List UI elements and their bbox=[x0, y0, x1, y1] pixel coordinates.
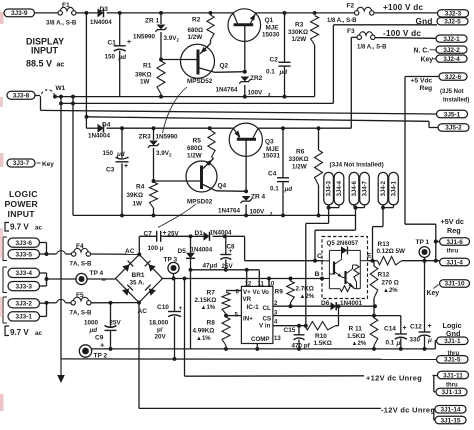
node bbox=[304, 324, 308, 328]
svg-text:1N5990: 1N5990 bbox=[156, 134, 179, 141]
wire bbox=[153, 148, 155, 182]
resistor R4 bbox=[127, 182, 158, 208]
svg-text:W1: W1 bbox=[56, 85, 66, 92]
svg-text:680Ω: 680Ω bbox=[188, 27, 204, 34]
wire +5V bbox=[368, 260, 378, 262]
connector 3J1-11 bbox=[437, 371, 468, 379]
svg-text:▲2%: ▲2% bbox=[383, 288, 398, 294]
node bbox=[189, 234, 193, 238]
wire bbox=[435, 340, 436, 349]
connector 3J3-8 bbox=[7, 91, 35, 99]
svg-text:D3: D3 bbox=[100, 6, 109, 13]
svg-text:+: + bbox=[124, 163, 128, 170]
svg-text:+5 Vdc: +5 Vdc bbox=[411, 77, 433, 84]
wire B rail bbox=[163, 278, 324, 280]
node bbox=[317, 213, 321, 217]
svg-text:39KΩ: 39KΩ bbox=[135, 72, 152, 79]
svg-text:INPUT: INPUT bbox=[8, 209, 36, 219]
transistor Q2 bbox=[161, 44, 229, 86]
connector 3J3-1 bbox=[8, 312, 40, 321]
zener ZR1 bbox=[133, 18, 180, 44]
wire bbox=[107, 127, 234, 129]
wire rail ground return bbox=[61, 102, 334, 104]
label N.C. bbox=[414, 48, 437, 55]
capacitor C12 bbox=[410, 261, 433, 349]
wire D4 feed vertical bbox=[85, 13, 87, 128]
wire with crossover bbox=[47, 299, 72, 302]
svg-text:R8: R8 bbox=[207, 320, 216, 327]
wire bbox=[139, 236, 156, 254]
svg-text:Q2: Q2 bbox=[220, 63, 229, 70]
pin 13 bbox=[274, 336, 281, 342]
resistor R5 bbox=[187, 128, 215, 159]
svg-text:1N4001: 1N4001 bbox=[340, 300, 363, 307]
svg-text:3J1-14: 3J1-14 bbox=[440, 406, 460, 413]
svg-text:4.99KΩ: 4.99KΩ bbox=[193, 328, 215, 335]
wire bbox=[161, 235, 203, 237]
node bbox=[313, 11, 317, 15]
svg-text:3J1-5: 3J1-5 bbox=[444, 357, 461, 364]
wire pin13 bbox=[256, 344, 258, 349]
svg-text:1/2W: 1/2W bbox=[188, 34, 203, 41]
wire bbox=[212, 157, 214, 159]
wire Q4 collector bbox=[216, 190, 246, 193]
label 3J5 not installed bbox=[440, 89, 469, 104]
diode D1 bbox=[195, 230, 233, 241]
svg-text:3J1-4: 3J1-4 bbox=[446, 259, 463, 266]
node bbox=[59, 101, 63, 105]
label Key bbox=[421, 57, 437, 64]
wire pin4 bbox=[273, 325, 305, 327]
svg-text:LOGIC: LOGIC bbox=[9, 189, 38, 199]
svg-text:680Ω: 680Ω bbox=[187, 145, 203, 152]
connector 3J2-1 bbox=[436, 35, 467, 43]
svg-text:R9: R9 bbox=[275, 289, 284, 296]
node bbox=[244, 213, 248, 217]
capacitor C14 bbox=[384, 316, 407, 349]
svg-text:3J3-4: 3J3-4 bbox=[16, 270, 33, 277]
node bbox=[208, 126, 212, 130]
wire bbox=[245, 205, 247, 216]
wire bbox=[35, 96, 41, 111]
wire bbox=[160, 13, 162, 24]
svg-text:D6: D6 bbox=[321, 300, 330, 307]
bridge rectifier BR1 bbox=[116, 248, 163, 315]
svg-text:1/2W: 1/2W bbox=[292, 164, 307, 171]
svg-text:MPSD52: MPSD52 bbox=[187, 78, 213, 85]
connector 3J3-5 bbox=[8, 250, 40, 259]
svg-text:330KΩ: 330KΩ bbox=[288, 29, 308, 36]
scan mark bbox=[0, 12, 4, 24]
zener ZR2 bbox=[216, 75, 272, 98]
wire bbox=[91, 302, 139, 304]
svg-text:Key: Key bbox=[42, 161, 54, 168]
svg-text:20V: 20V bbox=[155, 334, 167, 341]
svg-text:Gnd: Gnd bbox=[416, 17, 433, 26]
svg-text:1.5KΩ: 1.5KΩ bbox=[314, 340, 332, 347]
svg-text:C10: C10 bbox=[157, 304, 169, 311]
svg-text:3J5-2: 3J5-2 bbox=[445, 125, 462, 132]
svg-text:R3: R3 bbox=[295, 22, 304, 29]
wire bbox=[184, 279, 186, 377]
svg-text:88.5 V: 88.5 V bbox=[26, 59, 52, 69]
svg-text:ac: ac bbox=[35, 330, 43, 337]
node bbox=[317, 126, 321, 130]
wire channel2 bottom rail bbox=[73, 214, 356, 216]
wire -12V unreg bbox=[139, 406, 435, 415]
svg-text:Key: Key bbox=[427, 290, 440, 297]
svg-text:Q1: Q1 bbox=[265, 17, 274, 24]
IC U1 IC-1 box bbox=[241, 286, 273, 343]
node bbox=[71, 101, 75, 105]
svg-text:3J3-5: 3J3-5 bbox=[16, 251, 33, 258]
svg-text:3/8 A., S-B: 3/8 A., S-B bbox=[46, 20, 77, 27]
svg-text:VR: VR bbox=[243, 296, 252, 303]
label Logic Gnd bbox=[443, 321, 462, 338]
wire bbox=[282, 182, 284, 215]
svg-text:0.1: 0.1 bbox=[386, 340, 395, 347]
connector 3J1-14 bbox=[435, 406, 466, 414]
svg-text:1N5990: 1N5990 bbox=[133, 34, 156, 41]
node bbox=[152, 213, 156, 217]
svg-text:0.1: 0.1 bbox=[266, 69, 275, 76]
connector 3J5-1 bbox=[437, 110, 468, 118]
wire bbox=[110, 331, 112, 349]
wire bbox=[160, 94, 162, 97]
svg-text:0.1: 0.1 bbox=[270, 186, 279, 193]
wire bbox=[258, 127, 352, 129]
svg-text:1N4764: 1N4764 bbox=[216, 87, 239, 94]
svg-text:3J3-3: 3J3-3 bbox=[16, 283, 33, 290]
wire gnd vertical bbox=[332, 25, 334, 104]
node bbox=[120, 126, 124, 130]
svg-text:TP 1: TP 1 bbox=[416, 239, 430, 246]
wire 3J4-1/2 drop bbox=[373, 208, 384, 261]
test point TP4 bbox=[76, 270, 104, 285]
wire bbox=[244, 85, 246, 97]
svg-text:B: B bbox=[315, 271, 320, 278]
svg-text:R10: R10 bbox=[315, 333, 327, 340]
node bbox=[423, 347, 427, 351]
wire +5V bbox=[402, 260, 440, 262]
svg-text:C7: C7 bbox=[144, 231, 153, 238]
test point TP3 bbox=[164, 257, 180, 274]
svg-text:3J3-9: 3J3-9 bbox=[11, 10, 28, 17]
label LOGIC POWER INPUT bbox=[5, 189, 39, 219]
wire bbox=[190, 258, 192, 349]
connector 3J4-2 bbox=[378, 172, 388, 205]
svg-text:▲2%: ▲2% bbox=[300, 294, 315, 300]
svg-text:CL: CL bbox=[263, 305, 271, 312]
connector 3J3-7 bbox=[7, 159, 54, 168]
svg-text:R13: R13 bbox=[378, 241, 390, 248]
wire bbox=[110, 303, 112, 328]
node bbox=[137, 252, 141, 256]
wire bbox=[87, 276, 115, 285]
svg-text:TP 3: TP 3 bbox=[164, 257, 178, 264]
scan mark bbox=[0, 97, 3, 107]
diode D5 bbox=[178, 236, 213, 258]
wire bbox=[244, 236, 246, 260]
svg-text:2.15KΩ: 2.15KΩ bbox=[195, 297, 217, 304]
svg-text:3J4-6: 3J4-6 bbox=[352, 180, 358, 196]
capacitor C9 bbox=[84, 320, 122, 350]
node bbox=[223, 234, 227, 238]
wire bbox=[35, 12, 59, 14]
svg-text:F4: F4 bbox=[76, 243, 84, 250]
wire 3J4-6/7 link bbox=[354, 205, 365, 210]
wire Q2 collector bbox=[215, 71, 245, 74]
wire bbox=[160, 32, 162, 61]
node E terminal bbox=[367, 253, 374, 263]
svg-text:3.9V: 3.9V bbox=[156, 150, 170, 157]
svg-text:μ/: μ/ bbox=[157, 327, 163, 334]
wire 3J4-6/7 drop bbox=[315, 208, 356, 261]
svg-text:13: 13 bbox=[274, 336, 281, 342]
node bbox=[289, 304, 293, 308]
svg-text:μd: μd bbox=[116, 151, 125, 158]
wire bbox=[434, 376, 436, 392]
diode D4 bbox=[88, 121, 111, 139]
test point TP2 bbox=[79, 345, 107, 360]
svg-text:Q3: Q3 bbox=[265, 139, 274, 146]
node bbox=[224, 347, 228, 351]
svg-text:Reg: Reg bbox=[447, 226, 461, 235]
svg-text:R2: R2 bbox=[192, 17, 201, 24]
node bbox=[399, 347, 403, 351]
svg-text:-12V dc Unreg: -12V dc Unreg bbox=[381, 406, 435, 415]
wire IC pin12 feed bbox=[246, 270, 248, 287]
svg-text:F1: F1 bbox=[62, 2, 70, 9]
svg-text:2.7KΩ: 2.7KΩ bbox=[296, 286, 314, 293]
svg-text:IN+: IN+ bbox=[243, 316, 253, 323]
svg-text:330: 330 bbox=[410, 337, 421, 344]
wire +12V unreg bbox=[185, 373, 423, 382]
node bbox=[59, 95, 63, 99]
pin 6 bbox=[236, 290, 240, 296]
svg-text:+: + bbox=[229, 248, 233, 255]
svg-text:F2: F2 bbox=[347, 3, 355, 10]
wire bbox=[40, 303, 47, 317]
node bbox=[434, 240, 438, 244]
wire 3J4-1/2 link bbox=[381, 205, 393, 210]
fuse F3 bbox=[347, 28, 387, 51]
fuse F5 bbox=[70, 292, 93, 317]
svg-text:1.5KΩ: 1.5KΩ bbox=[347, 333, 365, 340]
svg-text:▲1%: ▲1% bbox=[201, 305, 216, 311]
svg-text:C12: C12 bbox=[410, 324, 422, 331]
svg-text:3J2-6: 3J2-6 bbox=[445, 74, 462, 81]
node bbox=[434, 259, 438, 263]
node bbox=[372, 347, 376, 351]
wire -100V to 3J2-1 bbox=[375, 29, 436, 38]
svg-text:IC-1: IC-1 bbox=[247, 304, 260, 311]
svg-text:POWER: POWER bbox=[5, 199, 39, 209]
svg-text:0.12Ω 5W: 0.12Ω 5W bbox=[377, 248, 406, 255]
wire bbox=[153, 128, 155, 140]
connector 3J3-4 bbox=[3, 267, 40, 293]
label thru bbox=[448, 351, 460, 357]
svg-text:+: + bbox=[127, 39, 131, 46]
svg-text:Q4: Q4 bbox=[218, 183, 227, 190]
node bbox=[53, 95, 57, 99]
svg-text:3J4-1: 3J4-1 bbox=[392, 180, 398, 196]
wire ground bus bbox=[61, 358, 437, 360]
resistor R10 bbox=[305, 322, 336, 348]
scan mark bbox=[0, 153, 4, 167]
connector 3J1-5 bbox=[437, 356, 469, 364]
svg-text:AC: AC bbox=[125, 248, 135, 255]
wire bbox=[433, 408, 436, 410]
svg-text:Q5 2N6057: Q5 2N6057 bbox=[327, 240, 359, 247]
svg-text:100 μ: 100 μ bbox=[148, 245, 164, 252]
connector 3J1-15 bbox=[435, 416, 466, 424]
svg-text:R5: R5 bbox=[193, 138, 202, 145]
fuse F2 bbox=[327, 3, 374, 24]
node bbox=[373, 304, 377, 308]
capacitor C2 bbox=[266, 56, 291, 76]
svg-text:270 Ω: 270 Ω bbox=[382, 280, 399, 287]
svg-text:INPUT: INPUT bbox=[31, 46, 59, 56]
wire bbox=[225, 346, 227, 349]
svg-text:μd: μd bbox=[89, 327, 98, 334]
node bbox=[255, 347, 259, 351]
svg-text:+100 V dc: +100 V dc bbox=[383, 3, 423, 12]
capacitor C15 bbox=[284, 326, 311, 350]
svg-text:V in: V in bbox=[259, 323, 271, 330]
node ZR2 top junction bbox=[243, 70, 247, 74]
wire bbox=[284, 67, 286, 97]
wire bbox=[173, 274, 175, 279]
svg-text:C1: C1 bbox=[108, 39, 117, 46]
svg-text:R1: R1 bbox=[143, 63, 152, 70]
svg-text:BR1: BR1 bbox=[132, 272, 145, 279]
svg-text:3J4-4: 3J4-4 bbox=[337, 180, 343, 196]
svg-text:C3: C3 bbox=[106, 167, 115, 174]
node bbox=[173, 357, 177, 361]
svg-text:+: + bbox=[179, 305, 183, 312]
svg-text:3J1-1: 3J1-1 bbox=[444, 338, 461, 345]
svg-text:1N4004: 1N4004 bbox=[191, 247, 213, 254]
wire bbox=[76, 12, 98, 14]
svg-text:1N4004: 1N4004 bbox=[210, 230, 233, 237]
wire rail channel1 bottom bbox=[55, 96, 315, 98]
resistor R8 bbox=[193, 317, 231, 346]
connector 3J2-6 bbox=[439, 73, 467, 81]
wire bbox=[40, 243, 47, 255]
connector 3J5-2 bbox=[438, 124, 469, 132]
svg-text:μd: μd bbox=[284, 186, 293, 193]
wire bbox=[138, 303, 140, 409]
svg-text:COMP: COMP bbox=[251, 336, 270, 343]
svg-text:1/2W: 1/2W bbox=[292, 36, 307, 43]
transistor Q4 bbox=[154, 159, 227, 206]
wire bbox=[153, 208, 155, 215]
svg-text:F3: F3 bbox=[347, 28, 355, 35]
svg-text:3J2-4: 3J2-4 bbox=[443, 56, 460, 63]
svg-text:thru: thru bbox=[447, 249, 459, 255]
connector 3J3-3 bbox=[8, 282, 40, 291]
wire pin6 bbox=[226, 290, 241, 292]
transistor Q3 bbox=[229, 123, 280, 191]
svg-text:7A, S-B: 7A, S-B bbox=[70, 310, 93, 317]
node bbox=[45, 277, 49, 281]
svg-text:150: 150 bbox=[103, 150, 114, 157]
node bbox=[71, 95, 75, 99]
svg-text:3J1-11: 3J1-11 bbox=[443, 372, 463, 379]
wire leader curve bbox=[163, 87, 188, 133]
svg-text:F5: F5 bbox=[76, 292, 84, 299]
capacitor C7 bbox=[144, 230, 180, 252]
node bbox=[267, 277, 271, 281]
svg-text:1W: 1W bbox=[133, 201, 143, 208]
svg-text:CS: CS bbox=[263, 316, 272, 323]
svg-text:100V: 100V bbox=[250, 209, 266, 216]
wire IC pin11 feed bbox=[258, 270, 260, 287]
node bbox=[45, 252, 49, 256]
node bbox=[281, 126, 285, 130]
pin 4 bbox=[274, 320, 278, 326]
svg-text:15031: 15031 bbox=[263, 153, 281, 160]
svg-text:7A, S-B: 7A, S-B bbox=[70, 261, 93, 268]
node bbox=[109, 301, 113, 305]
wire +5V bbox=[245, 260, 324, 262]
svg-text:1000: 1000 bbox=[84, 320, 99, 327]
svg-text:R4: R4 bbox=[136, 184, 145, 191]
transistor Q5 bbox=[322, 237, 368, 299]
wire pin2 bbox=[273, 305, 375, 307]
label +5Vdc Reg bbox=[411, 77, 433, 92]
wire Gnd bbox=[333, 17, 437, 26]
wire 3J4-3/4 drop bbox=[306, 208, 329, 326]
node bbox=[297, 347, 301, 351]
node bbox=[281, 213, 285, 217]
node bbox=[183, 277, 187, 281]
svg-text:1N4004: 1N4004 bbox=[90, 19, 112, 26]
node ZR4 junction bbox=[244, 189, 248, 193]
svg-text:3J1-13: 3J1-13 bbox=[441, 389, 461, 396]
svg-text:+5V dc: +5V dc bbox=[441, 217, 464, 226]
svg-text:C15: C15 bbox=[284, 327, 296, 334]
wire bbox=[47, 278, 76, 280]
resistor R2 bbox=[188, 15, 215, 41]
wire IC pin10 feed bbox=[268, 279, 270, 287]
wire pin3 bbox=[273, 315, 401, 317]
wire bbox=[282, 128, 284, 177]
label thru bbox=[447, 249, 459, 255]
ground arrow bbox=[57, 359, 65, 383]
svg-text:Installed): Installed) bbox=[443, 98, 469, 104]
capacitor C4 bbox=[268, 171, 292, 194]
svg-text:3J5-1: 3J5-1 bbox=[444, 111, 461, 118]
pin 10 bbox=[268, 281, 275, 287]
svg-text:C14: C14 bbox=[384, 326, 396, 333]
svg-text:18,000: 18,000 bbox=[149, 320, 169, 327]
pin 11 bbox=[258, 281, 265, 287]
svg-text:Reg: Reg bbox=[420, 85, 433, 92]
capacitor C8 bbox=[203, 236, 236, 270]
svg-text:47μd: 47μd bbox=[203, 263, 218, 270]
node bbox=[118, 11, 122, 15]
wire to 3J5-1 bbox=[41, 110, 437, 114]
wire leader curve bbox=[158, 204, 196, 228]
wire bbox=[351, 36, 357, 38]
connector 3J1-6 bbox=[440, 238, 470, 246]
pin 2 bbox=[274, 301, 278, 307]
scan mark bbox=[0, 394, 4, 411]
wire channel2 input bbox=[86, 127, 97, 129]
wire bbox=[210, 40, 212, 44]
